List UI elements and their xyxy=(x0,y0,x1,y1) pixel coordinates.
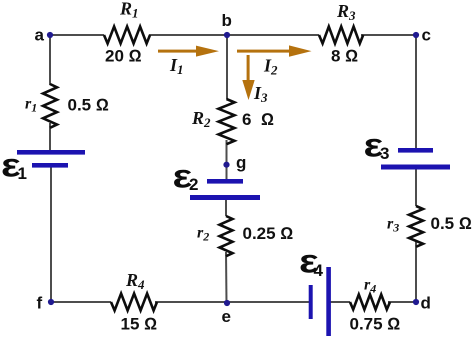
node f xyxy=(48,299,54,305)
svg-text:a: a xyxy=(35,26,45,45)
wire battery E4 to r4 xyxy=(330,301,350,303)
resistor r2 xyxy=(220,216,233,256)
wire R3 to c xyxy=(361,34,416,36)
svg-text:f: f xyxy=(37,294,43,313)
wire e to battery E4 xyxy=(227,301,309,303)
svg-text:2: 2 xyxy=(189,175,198,194)
wire r3 to d xyxy=(415,241,417,302)
current arrow I1 xyxy=(158,46,219,57)
resistor R3 xyxy=(319,27,363,44)
node a xyxy=(47,32,53,38)
wire R4 to e xyxy=(155,301,227,303)
wire R1 to b xyxy=(149,34,227,36)
node b xyxy=(224,32,230,38)
wire f to R4 xyxy=(51,301,111,303)
resistor r3 xyxy=(409,206,423,247)
svg-text:15 Ω: 15 Ω xyxy=(121,315,158,334)
current arrow I3 xyxy=(242,55,254,100)
wire battery E1 to f xyxy=(50,166,52,302)
wire battery E3 to r3 xyxy=(415,168,417,206)
svg-text:3: 3 xyxy=(380,144,389,163)
svg-text:1: 1 xyxy=(18,164,27,183)
wire a-b top left segment xyxy=(50,34,104,36)
battery E1 long plate xyxy=(17,150,85,155)
battery E1 short plate xyxy=(32,163,68,168)
svg-text:6: 6 xyxy=(242,110,251,129)
svg-text:20 Ω: 20 Ω xyxy=(105,47,142,66)
svg-text:0.25 Ω: 0.25 Ω xyxy=(243,224,294,243)
battery E3 short plate xyxy=(398,148,433,153)
svg-text:d: d xyxy=(421,294,431,313)
wire b down to R2 xyxy=(226,35,228,99)
resistor R1 xyxy=(104,27,150,44)
wire r1 to battery E1 xyxy=(49,123,51,151)
wire battery E2 to r2 xyxy=(225,198,227,216)
svg-text:4: 4 xyxy=(314,261,324,280)
node d xyxy=(413,299,419,305)
svg-text:0.5 Ω: 0.5 Ω xyxy=(68,96,109,115)
wire a down to r1 xyxy=(49,35,51,85)
node e xyxy=(224,300,230,306)
resistor r4 xyxy=(350,295,390,310)
wire R2 to g and battery E2 xyxy=(226,140,228,180)
resistor R2 xyxy=(219,99,235,144)
svg-text:Ω: Ω xyxy=(261,110,274,129)
node g xyxy=(223,162,229,168)
svg-text:c: c xyxy=(422,26,431,45)
battery E3 long plate xyxy=(381,165,450,170)
battery E4 short plate xyxy=(309,285,313,319)
wire c down to battery E3 xyxy=(415,35,417,149)
resistor r1 xyxy=(43,84,57,128)
battery E4 long plate xyxy=(326,267,331,336)
svg-text:0.75 Ω: 0.75 Ω xyxy=(350,315,401,334)
current arrow I2 xyxy=(237,45,312,56)
svg-text:8 Ω: 8 Ω xyxy=(331,47,358,66)
wire b to R3 xyxy=(227,34,319,36)
wire r4 to d xyxy=(388,301,416,303)
battery E2 long plate xyxy=(190,195,260,200)
svg-text:b: b xyxy=(222,11,232,30)
svg-text:0.5 Ω: 0.5 Ω xyxy=(431,214,472,233)
svg-text:e: e xyxy=(222,307,231,326)
battery E2 short plate xyxy=(207,179,243,184)
node c xyxy=(413,32,419,38)
wire r2 to e xyxy=(225,252,228,303)
svg-text:g: g xyxy=(236,153,246,172)
resistor R4 xyxy=(111,294,157,311)
